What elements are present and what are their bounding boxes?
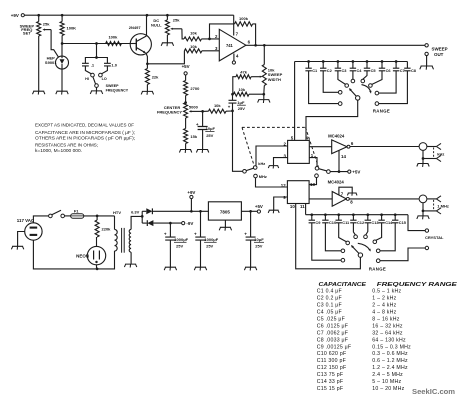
- capacitor 1000uF 25V (neg rail): [164, 223, 189, 267]
- svg-text:C9: C9: [315, 220, 321, 225]
- svg-text:C6 .0125 μF: C6 .0125 μF: [317, 323, 348, 329]
- svg-text:10k: 10k: [190, 44, 197, 49]
- svg-text:RANGE: RANGE: [369, 266, 386, 271]
- terminal sweep out ground jack: [425, 52, 428, 66]
- terminal +9V supply: [187, 190, 195, 211]
- connector jack kHz output: [417, 143, 445, 167]
- svg-text:+5V: +5V: [352, 170, 360, 175]
- transistor Q1 2N497: [129, 25, 152, 55]
- svg-text:OUT: OUT: [434, 52, 444, 57]
- svg-text:4 – 8 kHz: 4 – 8 kHz: [372, 310, 396, 316]
- resistor 15k: [184, 118, 198, 149]
- wire +9V bus drop to op-amp pin 7: [233, 15, 235, 35]
- wire pin13 from contact: [309, 177, 316, 184]
- table capacitance / frequency rows: [317, 289, 411, 392]
- ground PUT cathode: [56, 91, 68, 94]
- svg-text:1 MHz: 1 MHz: [437, 204, 449, 209]
- wire feedback to output: [253, 24, 256, 45]
- svg-text:S9001: S9001: [45, 60, 57, 65]
- diode D1 (+9V): [142, 208, 208, 214]
- resistor 10k (non-inverting input): [184, 44, 219, 53]
- svg-text:32 – 64 kHz: 32 – 64 kHz: [372, 330, 403, 336]
- wire C6 to contact: [372, 71, 382, 85]
- ground pot 25k: [33, 91, 45, 94]
- switch kHz/MHz left pole: [243, 161, 267, 179]
- svg-text:MC4024: MC4024: [328, 179, 345, 184]
- svg-text:CAPACITANCE: CAPACITANCE: [319, 282, 367, 288]
- svg-text:C2: C2: [327, 68, 333, 73]
- svg-text:0.6 – 1.2 MHz: 0.6 – 1.2 MHz: [372, 358, 408, 364]
- svg-text:2N497: 2N497: [129, 25, 142, 30]
- label SWEEP FREQ SET: [20, 23, 35, 35]
- node PUT anode junction: [61, 42, 64, 45]
- wire C15 to contact: [380, 223, 395, 251]
- resistor 10k (center freq to summing): [203, 103, 233, 113]
- svg-text:0.15 – 0.3 MHz: 0.15 – 0.3 MHz: [372, 344, 411, 350]
- label CRYSTAL: [425, 235, 444, 240]
- svg-text:MC4024: MC4024: [328, 134, 345, 139]
- svg-text:2 – 4 kHz: 2 – 4 kHz: [372, 303, 396, 309]
- ground 7805: [219, 227, 231, 230]
- terminal +5V (osc): [348, 170, 361, 175]
- svg-text:100K: 100K: [67, 25, 77, 30]
- svg-text:741: 741: [226, 43, 234, 48]
- wire DC null wiper to 10k: [182, 29, 184, 39]
- svg-text:kHz: kHz: [437, 151, 444, 156]
- fuse F1: [71, 209, 84, 219]
- arrow rotation range 1: [362, 85, 372, 94]
- svg-text:6.3V: 6.3V: [131, 210, 140, 215]
- connector jack MHz output: [417, 195, 449, 219]
- buffer U3 inverter (MHz): [328, 179, 354, 206]
- svg-text:25V: 25V: [238, 106, 245, 111]
- svg-text:10k: 10k: [238, 87, 245, 92]
- svg-text:10μF: 10μF: [206, 126, 216, 131]
- capacitor C15: [392, 215, 407, 225]
- svg-text:1 – 2 kHz: 1 – 2 kHz: [372, 296, 396, 302]
- wire +5V feed: [330, 171, 348, 173]
- potentiometer 10k SWEEP WIDTH: [251, 45, 282, 85]
- svg-text:LO: LO: [102, 77, 107, 81]
- svg-text:C8 .0033 μF: C8 .0033 μF: [317, 337, 348, 343]
- svg-text:C15 15 pF: C15 15 pF: [317, 386, 343, 392]
- wire AC bottom rail: [33, 240, 114, 270]
- diode D2 (-9V): [142, 220, 181, 226]
- node center freq wiper: [201, 110, 204, 113]
- svg-text:C2 0.2 μF: C2 0.2 μF: [317, 296, 342, 302]
- wire C12 to contact: [353, 223, 355, 235]
- svg-text:C6: C6: [386, 68, 392, 73]
- wire pin7 loop to ground: [339, 187, 352, 195]
- svg-text:k=1000, M=1000 000.: k=1000, M=1000 000.: [35, 148, 82, 154]
- node emitter junction: [146, 62, 149, 65]
- resistor 100k (base): [106, 34, 122, 45]
- svg-text:C4: C4: [357, 68, 363, 73]
- wire plug case to ground: [18, 232, 25, 247]
- resistor 100K: [60, 15, 76, 43]
- resistor 10k (inverting input): [184, 30, 219, 41]
- switch RANGE 2 contacts: [341, 235, 380, 263]
- potentiometer DC NULL 25k: [151, 15, 182, 42]
- ground osc1 pin3: [268, 166, 278, 169]
- wire C1 to contact: [309, 71, 339, 104]
- svg-text:117 VAC: 117 VAC: [17, 218, 35, 223]
- svg-text:10k: 10k: [214, 103, 221, 108]
- svg-text:11: 11: [300, 204, 305, 209]
- svg-text:C12: C12: [357, 220, 365, 225]
- svg-text:10μF: 10μF: [254, 237, 264, 242]
- svg-text:1000μF: 1000μF: [204, 237, 218, 242]
- svg-text:RESISTANCES ARE IN OHMS;: RESISTANCES ARE IN OHMS;: [35, 143, 98, 149]
- svg-text:C9 .00125 μF: C9 .00125 μF: [317, 344, 352, 350]
- capacitor C1: [305, 62, 318, 73]
- wire 7805 ground pin: [224, 220, 226, 227]
- svg-text:5 – 10 MHz: 5 – 10 MHz: [372, 379, 401, 385]
- wire 7805 output: [241, 210, 257, 213]
- capacitor 10uF 25V (5V rail): [244, 211, 264, 267]
- ground 1000uF neg: [164, 267, 176, 270]
- wire contact8 to crystal jack: [380, 248, 425, 261]
- svg-text:100k: 100k: [108, 34, 118, 39]
- svg-text:2700: 2700: [190, 86, 200, 91]
- wire C10 to contact: [325, 223, 341, 251]
- wire wiper1 to pin 4: [306, 100, 358, 140]
- svg-text:5000: 5000: [189, 104, 199, 109]
- svg-text:SeekIC.com: SeekIC.com: [412, 387, 455, 396]
- wire C4 to contact: [352, 71, 354, 79]
- label RANGE 2: [369, 266, 386, 271]
- svg-text:15k: 15k: [190, 134, 197, 139]
- wire 2N497 collector: [146, 15, 148, 36]
- svg-text:C12 150 pF: C12 150 pF: [317, 365, 347, 371]
- svg-text:16 – 32 kHz: 16 – 32 kHz: [372, 323, 403, 329]
- svg-text:1000μF: 1000μF: [174, 237, 188, 242]
- wire secondary bottom to ground: [124, 252, 136, 267]
- svg-text:100k: 100k: [239, 16, 249, 21]
- node +9V supply terminal: [11, 13, 25, 18]
- svg-text:+: +: [164, 231, 167, 236]
- svg-text:HI: HI: [85, 77, 89, 81]
- svg-text:2.4 – 5 MHz: 2.4 – 5 MHz: [372, 372, 403, 378]
- wire switch to fuse: [64, 215, 70, 217]
- wire C9 to contact: [312, 223, 341, 260]
- svg-text:HTV: HTV: [113, 210, 121, 215]
- svg-text:+: +: [228, 105, 231, 110]
- potentiometer 5000 CENTER FREQUENCY: [184, 103, 203, 118]
- svg-text:13: 13: [310, 182, 315, 187]
- capacitor C5: [364, 62, 377, 73]
- svg-text:C13: C13: [371, 220, 379, 225]
- svg-text:C5: C5: [371, 68, 377, 73]
- wire pin9 to ground: [274, 197, 288, 210]
- capacitor C8: [404, 62, 417, 73]
- wire C13 to contact: [366, 223, 368, 235]
- ground osc2 pin7: [347, 193, 357, 196]
- ground 1000uF pos: [194, 267, 206, 270]
- wire timing bus 1: [295, 60, 408, 63]
- svg-text:7805: 7805: [220, 209, 231, 214]
- node summing A: [231, 93, 234, 96]
- svg-text:C1: C1: [312, 68, 318, 73]
- svg-text:FREQUENCY RANGE: FREQUENCY RANGE: [377, 282, 458, 288]
- svg-text:25V: 25V: [206, 244, 213, 249]
- capacitor C11: [336, 215, 351, 225]
- svg-text:SWEEP: SWEEP: [432, 46, 448, 51]
- switch kHz/MHz right section: [315, 167, 331, 178]
- svg-text:RANGE: RANGE: [373, 108, 390, 113]
- node pot bottom: [262, 86, 265, 100]
- svg-text:+5V: +5V: [182, 64, 190, 69]
- capacitor C3: [335, 62, 348, 73]
- capacitor 1000uF 25V (pos rail): [194, 211, 219, 267]
- svg-text:0.5 – 1 kHz: 0.5 – 1 kHz: [372, 289, 401, 295]
- svg-text:C10 620 pF: C10 620 pF: [317, 351, 347, 357]
- switch RANGE 2 wiper: [351, 245, 363, 257]
- wire C14 to contact: [376, 223, 382, 241]
- wire 25k wiper to PUT gate: [51, 30, 59, 58]
- svg-text:SWEEP: SWEEP: [106, 84, 120, 88]
- wire bus1 to pin 5: [294, 62, 296, 141]
- svg-text:8 – 16 kHz: 8 – 16 kHz: [372, 316, 399, 322]
- svg-text:25k: 25k: [173, 17, 180, 22]
- svg-text:25V: 25V: [176, 244, 183, 249]
- svg-text:CAPACITANCE ARE IN MICROFARADS: CAPACITANCE ARE IN MICROFARADS ( μF );: [35, 130, 135, 136]
- label CENTER FREQUENCY: [157, 105, 182, 115]
- svg-text:12: 12: [281, 183, 286, 188]
- svg-text:NULL: NULL: [151, 22, 162, 27]
- ground DC null pot: [161, 43, 173, 46]
- wire pin14 to +5V line: [338, 150, 341, 173]
- lamp NEON: [76, 237, 106, 269]
- terminal SWEEP OUT: [425, 44, 448, 57]
- wire osc1 block to buffer: [309, 146, 331, 148]
- wire plug to switch: [33, 216, 48, 223]
- svg-text:25V: 25V: [206, 133, 213, 138]
- wire 2N497 emitter: [146, 53, 147, 64]
- resistor 220k: [95, 216, 111, 237]
- label RANGE 1: [373, 108, 390, 113]
- note text block: [35, 122, 135, 154]
- capacitor 10uF 25V (center freq): [196, 111, 216, 149]
- wire secondary to rectifier: [131, 211, 143, 229]
- potentiometer 25k SWEEP FREQ SET: [37, 15, 51, 91]
- wire C3 to contact: [338, 71, 346, 85]
- svg-text:10k: 10k: [190, 30, 197, 35]
- svg-text:-9V: -9V: [186, 221, 193, 226]
- ground 10uF 5V: [244, 267, 256, 270]
- svg-text:C7 .0062 μF: C7 .0062 μF: [317, 330, 348, 336]
- ground sweep out: [420, 66, 434, 70]
- svg-text:+: +: [244, 231, 247, 236]
- svg-text:C13 75 pF: C13 75 pF: [317, 372, 343, 378]
- resistor 22k: [145, 64, 159, 91]
- svg-text:C5 .025 μF: C5 .025 μF: [317, 316, 345, 322]
- svg-text:C8: C8: [411, 68, 417, 73]
- ground osc2 pin9: [268, 210, 279, 213]
- svg-text:1μF: 1μF: [237, 100, 245, 105]
- svg-text:10 – 20 MHz: 10 – 20 MHz: [372, 386, 404, 392]
- terminal -9V: [182, 221, 194, 226]
- svg-text:C10: C10: [329, 220, 336, 225]
- wire op-amp output (sweep line): [246, 44, 425, 47]
- wire +9V bus: [24, 14, 233, 17]
- svg-text:C4 .05 μF: C4 .05 μF: [317, 310, 342, 316]
- gang dashes (mechanical link): [242, 127, 318, 166]
- wire pin2 to kHz contact: [256, 146, 288, 166]
- node 7805 input junction: [199, 210, 202, 213]
- svg-text:C11: C11: [342, 220, 350, 225]
- wire pin1 to switch contact: [309, 158, 317, 167]
- svg-text:FREQUENCY: FREQUENCY: [106, 89, 129, 93]
- op-amp U1 741: [215, 29, 251, 61]
- svg-text:22k: 22k: [152, 74, 159, 79]
- ground AC plug: [11, 246, 23, 249]
- switch RANGE 1 contacts: [338, 79, 378, 105]
- wire C8 to contact: [379, 71, 408, 104]
- svg-text:47k: 47k: [240, 70, 247, 75]
- wire MHz contact to pin12: [256, 178, 288, 187]
- svg-text:10: 10: [290, 204, 295, 209]
- terminal crystal 1: [425, 229, 428, 232]
- node feedback junction pin2: [208, 38, 211, 41]
- svg-text:0.3 – 0.6 MHz: 0.3 – 0.6 MHz: [372, 351, 408, 357]
- IC U2 MC4024 oscillator block: [283, 135, 313, 163]
- svg-text:25V: 25V: [255, 244, 262, 249]
- svg-text:WIDTH: WIDTH: [268, 77, 281, 82]
- svg-text:NEON: NEON: [76, 253, 89, 258]
- switch power S1: [49, 210, 65, 218]
- wire osc2 output: [349, 198, 419, 200]
- switch SWEEP FREQUENCY HI/LO: [85, 73, 107, 90]
- ground 10uF: [196, 150, 208, 153]
- IC U4 7805 regulator: [208, 202, 241, 220]
- capacitor C7: [393, 62, 405, 73]
- capacitor C6: [379, 62, 392, 73]
- capacitor C14: [378, 215, 393, 225]
- capacitor C10: [322, 215, 336, 225]
- wire control voltage to kHz/MHz switch: [233, 111, 243, 171]
- wire pin11 to bus2: [305, 204, 307, 215]
- svg-text:CRYSTAL: CRYSTAL: [425, 235, 444, 240]
- terminal crystal 2: [425, 246, 428, 249]
- resistor 2700: [184, 75, 200, 103]
- svg-text:C11 300 pF: C11 300 pF: [317, 358, 346, 364]
- watermark SeekIC.com: [412, 387, 455, 396]
- table header CAPACITANCE: [319, 282, 367, 288]
- switch RANGE 1 wiper: [349, 88, 360, 100]
- buffer U2 inverter (kHz): [328, 134, 354, 159]
- arrow rotation range 2: [358, 243, 371, 251]
- wire timing bus 2: [306, 213, 408, 216]
- wire C7 to contact: [379, 71, 396, 93]
- wire C5 to contact: [363, 71, 367, 79]
- transistor HEP S9001 (PUT): [45, 44, 69, 92]
- svg-text:C1 0.4 μF: C1 0.4 μF: [317, 289, 342, 295]
- svg-text:C3: C3: [342, 68, 348, 73]
- wire osc2 block to buffer: [309, 198, 332, 200]
- wire pin3 to ground: [274, 158, 288, 166]
- svg-text:+9V: +9V: [187, 190, 195, 195]
- terminal op-amp pin 4 (-9V): [232, 54, 235, 65]
- svg-text:64 – 130 kHz: 64 – 130 kHz: [372, 337, 406, 343]
- node summing B: [231, 110, 234, 113]
- wire C2 to contact: [323, 71, 338, 93]
- svg-text:C14 33 pF: C14 33 pF: [317, 379, 343, 385]
- IC U3 MC4024 oscillator block 2: [281, 181, 316, 209]
- svg-text:25k: 25k: [43, 22, 50, 27]
- terminal +5V (center freq): [182, 64, 190, 75]
- svg-text:1.0: 1.0: [111, 63, 117, 68]
- wire anode node to base resistor: [62, 42, 130, 45]
- svg-text:C3 0.1 μF: C3 0.1 μF: [317, 303, 342, 309]
- resistor 100k (feedback): [235, 16, 253, 26]
- wire emitter to pin3 resistor: [147, 51, 184, 64]
- svg-text:C7: C7: [400, 68, 405, 73]
- svg-text:+9V: +9V: [11, 13, 19, 18]
- resistor 10k (pot bottom): [233, 87, 263, 96]
- terminal +5V output: [255, 204, 263, 213]
- ground sweep freq switch: [90, 91, 102, 94]
- svg-text:14: 14: [341, 154, 346, 159]
- transformer T1 HTV: [113, 210, 140, 253]
- svg-text:SET: SET: [23, 30, 31, 35]
- capacitor C2: [320, 62, 333, 73]
- svg-text:+5V: +5V: [255, 204, 263, 209]
- svg-text:220k: 220k: [102, 227, 112, 232]
- wire bus2 to crystal jack: [408, 215, 425, 231]
- capacitor 1.0 (sweep freq LO): [97, 58, 118, 74]
- svg-text:OTHERS ARE IN PICOFARADS ( pF: OTHERS ARE IN PICOFARADS ( pF OR μμF);: [35, 136, 135, 142]
- wire feedback loop: [210, 24, 235, 39]
- svg-text:EXCEPT AS INDICATED, DECIMAL V: EXCEPT AS INDICATED, DECIMAL VALUES OF: [35, 122, 134, 128]
- connector 117 VAC plug: [17, 218, 42, 240]
- svg-text:+: +: [196, 122, 199, 127]
- ground sweep width pot: [258, 100, 270, 103]
- svg-text:C14: C14: [385, 220, 393, 225]
- svg-text:FREQUENCY: FREQUENCY: [157, 109, 182, 114]
- svg-text:C15: C15: [399, 220, 407, 225]
- capacitor 1uF 25V: [228, 94, 246, 111]
- svg-text:MHz: MHz: [259, 174, 267, 179]
- node -9V rail junction: [169, 222, 172, 225]
- resistor 47k: [233, 70, 251, 95]
- label SWEEP FREQUENCY: [106, 84, 129, 92]
- ground 15k: [179, 150, 191, 153]
- node pot top: [184, 101, 187, 104]
- svg-text:1.2 – 2.4 MHz: 1.2 – 2.4 MHz: [372, 365, 408, 371]
- svg-text:F1: F1: [74, 209, 79, 214]
- svg-text:+: +: [194, 231, 197, 236]
- capacitor C9: [309, 215, 322, 225]
- wire wiper2 to pin 10: [296, 204, 361, 269]
- wire fuse to transformer: [84, 215, 115, 218]
- capacitor C12: [350, 215, 365, 225]
- capacitor C4: [350, 62, 363, 73]
- wire osc1 output: [350, 146, 419, 148]
- wire C11 to contact: [339, 223, 347, 242]
- capacitor .1 (sweep freq HI): [82, 44, 98, 74]
- node +9V terminal junction: [190, 210, 193, 213]
- ground 22k: [141, 91, 153, 94]
- capacitor C13: [365, 215, 380, 225]
- svg-text:kHz: kHz: [258, 161, 265, 166]
- table header FREQUENCY RANGE: [377, 282, 458, 288]
